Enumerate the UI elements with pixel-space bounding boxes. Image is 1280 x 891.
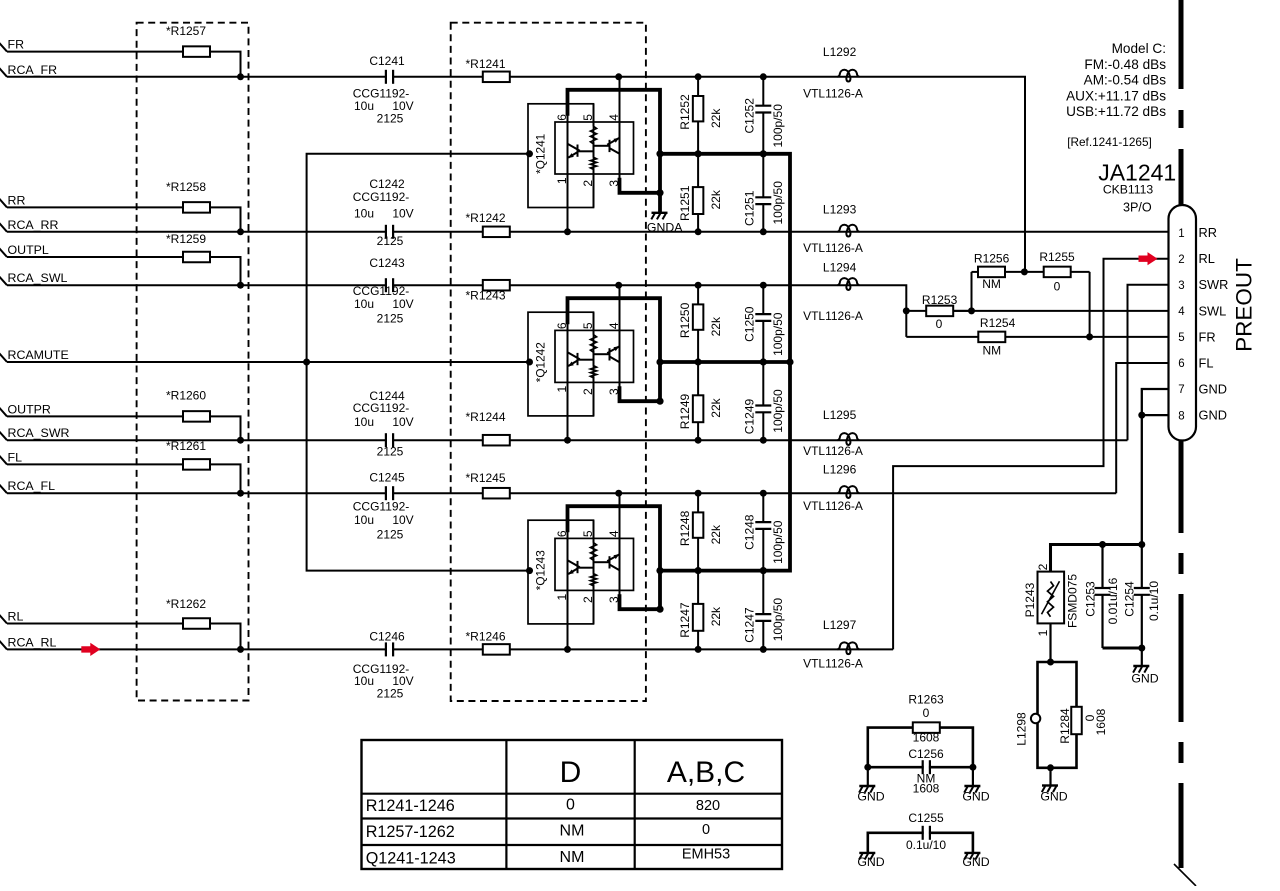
inductor L1297 VTL1126-A (837, 642, 859, 654)
svg-text:C1241: C1241 (369, 54, 405, 68)
resistor R1248 22k (697, 493, 699, 570)
resistor R1245 (series) (483, 488, 510, 499)
svg-text:Q1241-1243: Q1241-1243 (366, 850, 456, 868)
node rail junctions section 3 (695, 567, 702, 574)
red arrow at pin 2 (1139, 252, 1158, 265)
svg-text:*R1246: *R1246 (465, 630, 505, 644)
svg-text:C1252: C1252 (742, 98, 756, 134)
svg-text:RCA_RR: RCA_RR (8, 218, 59, 232)
svg-text:3: 3 (607, 388, 621, 395)
svg-text:RL: RL (8, 610, 24, 624)
svg-text:VTL1126-A: VTL1126-A (803, 499, 863, 513)
svg-text:RCA_FR: RCA_FR (8, 63, 58, 77)
wire RCA_SWR (0, 431, 1128, 440)
svg-text:22k: 22k (709, 189, 723, 209)
connector JA1241 CKB1113 3P/O (1169, 205, 1229, 441)
svg-text:3: 3 (607, 596, 621, 603)
capacitor C1247 100p/50 (762, 571, 764, 650)
red arrow on RCA_RL (81, 643, 100, 656)
svg-text:CCG1192-: CCG1192- (353, 401, 409, 415)
node RCA_SWL/R1253 junction (903, 307, 910, 314)
wire C1253/C1254 bottom rail (1103, 646, 1142, 649)
svg-text:100p/50: 100p/50 (771, 598, 785, 642)
node R1247 bottom (695, 646, 702, 653)
thermistor P1243 FSMD075 (1023, 563, 1080, 662)
node FL/RCA_FL junction (237, 490, 244, 497)
resistor R1263 0 1608 (868, 692, 973, 767)
svg-text:100p/50: 100p/50 (771, 389, 785, 433)
node C1254 tap (1138, 541, 1145, 548)
svg-text:C1253: C1253 (1083, 581, 1097, 617)
svg-text:RCA_RL: RCA_RL (8, 635, 57, 649)
svg-text:1608: 1608 (913, 782, 940, 796)
resistor R1256 NM (972, 271, 979, 273)
svg-text:*R1245: *R1245 (465, 471, 505, 485)
svg-text:NM: NM (982, 343, 1001, 357)
svg-text:GND: GND (857, 790, 884, 804)
node C1253 tap (1099, 541, 1106, 548)
svg-text:L1297: L1297 (823, 618, 857, 632)
svg-text:0.01u/16: 0.01u/16 (1106, 577, 1120, 624)
svg-text:10u: 10u (354, 415, 374, 429)
node R1248 top (695, 490, 702, 497)
dashed option-group box (R1257-R1262) (137, 23, 249, 701)
svg-text:GNDA: GNDA (647, 220, 683, 234)
node RCAMUTE bus junction (303, 359, 310, 366)
svg-text:R1252: R1252 (678, 94, 692, 130)
svg-text:5: 5 (581, 322, 595, 329)
svg-text:2: 2 (581, 180, 595, 187)
capacitor C1256 NM 1608 (864, 747, 976, 796)
svg-text:R1284: R1284 (1058, 708, 1072, 744)
svg-text:R1253: R1253 (922, 293, 958, 307)
svg-text:10V: 10V (392, 206, 413, 220)
svg-text:C1242: C1242 (369, 177, 405, 191)
node pin7/pin8 junction (1138, 412, 1145, 419)
svg-text:6: 6 (1178, 358, 1184, 370)
svg-text:10u: 10u (354, 674, 374, 688)
svg-text:1608: 1608 (913, 731, 940, 745)
ground GND (C1255 left) (859, 852, 875, 854)
svg-text:USB:+11.72 dBs: USB:+11.72 dBs (1066, 104, 1166, 119)
svg-text:D: D (560, 756, 582, 789)
wire RR (0, 198, 241, 231)
svg-text:AUX:+11.17 dBs: AUX:+11.17 dBs (1066, 88, 1166, 103)
svg-text:GND: GND (1040, 790, 1067, 804)
svg-text:FL: FL (1199, 355, 1214, 370)
svg-text:*R1258: *R1258 (166, 180, 206, 194)
svg-text:*R1260: *R1260 (166, 389, 206, 403)
svg-text:GND: GND (1131, 672, 1158, 686)
node R1250 top (695, 282, 702, 289)
svg-text:C1247: C1247 (742, 607, 756, 643)
transistor *Q1242 (dual digital transistor) (526, 282, 664, 444)
svg-text:*R1257: *R1257 (166, 24, 206, 38)
svg-text:C1243: C1243 (369, 256, 405, 270)
inductor L1295 VTL1126-A (837, 433, 859, 445)
ground GNDA (658, 193, 662, 213)
svg-text:1: 1 (555, 177, 569, 184)
svg-text:2: 2 (1036, 563, 1050, 570)
node OUTPL/RCA_SWL junction (237, 282, 244, 289)
svg-text:[Ref.1241-1265]: [Ref.1241-1265] (1067, 135, 1152, 149)
wire FL to pin 6 (1116, 363, 1168, 493)
capacitor C1250 100p/50 (762, 285, 764, 362)
svg-text:FL: FL (8, 450, 23, 464)
svg-text:AM:-0.54 dBs: AM:-0.54 dBs (1084, 73, 1167, 88)
resistor R1258 (option) (183, 202, 210, 213)
svg-text:NM: NM (982, 277, 1001, 291)
ground GND (C1256 right) (972, 767, 974, 786)
resistor R1260 (option) (183, 411, 210, 422)
svg-text:L1295: L1295 (823, 408, 857, 422)
svg-text:FSMD075: FSMD075 (1066, 574, 1080, 628)
svg-text:GND: GND (962, 790, 989, 804)
node C1252 top (760, 73, 767, 80)
thick rail section 2 (660, 360, 790, 364)
svg-text:10u: 10u (354, 297, 374, 311)
resistor R1250 22k (697, 285, 699, 362)
capacitor C1254 0.1u/10 (1141, 545, 1143, 649)
svg-text:C1255: C1255 (908, 811, 944, 825)
svg-text:C1248: C1248 (742, 514, 756, 550)
svg-text:R1248: R1248 (678, 510, 692, 546)
resistor R1241 (series) (483, 72, 510, 83)
svg-text:10V: 10V (392, 297, 413, 311)
node C1251 bottom (760, 228, 767, 235)
capacitor C1244 CCG1192-10u 10V 2125 (387, 432, 392, 448)
resistor R1247 22k (697, 571, 699, 650)
thick common rail bus (x=790) (658, 154, 790, 571)
heavy page-edge dashed line (bottom segment) (1179, 440, 1184, 533)
wire pins 7-8 to GND rail (1142, 389, 1169, 545)
svg-text:VTL1126-A: VTL1126-A (803, 657, 863, 671)
svg-text:3P/O: 3P/O (1123, 201, 1152, 215)
capacitor C1252 100p/50 (762, 77, 764, 154)
svg-text:C1250: C1250 (742, 306, 756, 342)
svg-text:4: 4 (607, 322, 621, 329)
node C1248 top (760, 490, 767, 497)
svg-text:10u: 10u (354, 206, 374, 220)
svg-text:0: 0 (936, 317, 943, 331)
inductor L1293 VTL1126-A (837, 225, 859, 237)
svg-text:C1254: C1254 (1123, 581, 1137, 617)
resistor R1251 22k (697, 154, 699, 232)
svg-text:L1294: L1294 (823, 260, 857, 274)
capacitor C1248 100p/50 (762, 493, 764, 570)
svg-text:6: 6 (555, 114, 569, 121)
node R1253/pin4 junction (968, 307, 975, 314)
svg-text:10u: 10u (354, 513, 374, 527)
svg-text:2125: 2125 (377, 527, 404, 541)
capacitor C1241 CCG1192-10u 10V 2125 (387, 69, 392, 85)
resistor R1257 (option) (183, 46, 210, 57)
node FR/R1255/R1256 junction (1021, 268, 1028, 275)
resistor R1244 (series) (483, 435, 510, 446)
svg-text:7: 7 (1178, 384, 1184, 396)
svg-text:R1257-1262: R1257-1262 (366, 823, 455, 841)
svg-text:VTL1126-A: VTL1126-A (803, 444, 863, 458)
svg-text:R1251: R1251 (678, 185, 692, 221)
svg-text:*Q1241: *Q1241 (534, 134, 548, 174)
svg-text:22k: 22k (709, 524, 723, 544)
svg-text:22k: 22k (709, 316, 723, 336)
svg-text:2: 2 (581, 388, 595, 395)
svg-text:2: 2 (581, 596, 595, 603)
dashed option-group box (R1241-R1246 / Q1241-Q1243) (451, 23, 646, 701)
svg-text:5: 5 (1178, 332, 1184, 344)
svg-text:VTL1126-A: VTL1126-A (803, 86, 863, 100)
inductor L1294 VTL1126-A (837, 278, 859, 290)
resistor R1243 (series) (483, 280, 510, 291)
svg-text:C1246: C1246 (369, 630, 405, 644)
svg-text:CKB1113: CKB1113 (1103, 183, 1154, 197)
svg-text:R1247: R1247 (678, 602, 692, 638)
node R1252 top (695, 73, 702, 80)
svg-text:R1249: R1249 (678, 394, 692, 430)
node OUTPR/RCA_SWR junction (237, 437, 244, 444)
svg-text:*R1241: *R1241 (465, 57, 505, 71)
wire RL to pin 2 (893, 259, 1168, 650)
svg-text:0: 0 (702, 822, 710, 838)
svg-text:1608: 1608 (1094, 708, 1108, 735)
capacitor C1246 CCG1192-10u 10V 2125 (387, 641, 392, 657)
transistor *Q1243 (dual digital transistor) (526, 490, 664, 653)
node RR/RCA_RR junction (237, 228, 244, 235)
resistor R1249 22k (697, 362, 699, 440)
svg-text:RCA_FL: RCA_FL (8, 479, 56, 493)
svg-text:1: 1 (555, 386, 569, 393)
svg-text:2125: 2125 (377, 234, 404, 248)
svg-text:*Q1242: *Q1242 (534, 342, 548, 382)
svg-text:C1256: C1256 (908, 747, 944, 761)
svg-text:0.1u/10: 0.1u/10 (906, 838, 946, 852)
svg-text:4: 4 (1178, 306, 1185, 318)
svg-text:1: 1 (555, 594, 569, 601)
svg-text:2125: 2125 (377, 312, 404, 326)
wire FL (0, 455, 241, 493)
svg-text:100p/50: 100p/50 (771, 181, 785, 225)
heavy page-edge dashed line (top segment) (1179, 0, 1184, 205)
capacitor C1245 CCG1192-10u 10V 2125 (387, 485, 392, 501)
node R1255/pin5 junction (1086, 333, 1093, 340)
svg-text:*R1242: *R1242 (465, 211, 505, 225)
svg-text:R1254: R1254 (980, 316, 1016, 330)
wire OUTPR (0, 407, 241, 440)
svg-text:RL: RL (1199, 251, 1215, 266)
svg-text:RCA_SWR: RCA_SWR (8, 426, 70, 440)
svg-text:NM: NM (560, 849, 585, 866)
svg-text:3: 3 (607, 180, 621, 187)
svg-text:*R1261: *R1261 (166, 439, 206, 453)
resistor R1246 (series) (483, 644, 510, 655)
svg-text:6: 6 (555, 530, 569, 537)
svg-text:L1292: L1292 (823, 45, 857, 59)
inductor L1298 / resistor R1284 parallel loop (1015, 659, 1108, 772)
capacitor C1242 CCG1192-10u 10V 2125 (387, 224, 392, 240)
svg-text:*R1262: *R1262 (166, 597, 206, 611)
svg-text:RR: RR (1199, 225, 1217, 240)
svg-text:5: 5 (581, 114, 595, 121)
wire SWR to pin 3 (1128, 285, 1169, 441)
svg-text:SWL: SWL (1199, 303, 1227, 318)
resistor R1254 NM (906, 336, 978, 338)
svg-text:NM: NM (560, 823, 585, 840)
wire RL (0, 615, 241, 650)
svg-text:EMH53: EMH53 (682, 847, 730, 863)
ground GND (C1254) (1141, 648, 1143, 666)
svg-text:A,B,C: A,B,C (667, 756, 745, 789)
svg-text:R1250: R1250 (678, 302, 692, 338)
svg-text:CCG1192-: CCG1192- (353, 190, 409, 204)
svg-text:VTL1126-A: VTL1126-A (803, 241, 863, 255)
svg-text:RCA_SWL: RCA_SWL (8, 271, 68, 285)
resistor R1259 (option) (183, 252, 210, 263)
svg-text:C1249: C1249 (742, 399, 756, 435)
node R1249 bottom (695, 437, 702, 444)
svg-text:FR: FR (1199, 329, 1216, 344)
svg-text:2125: 2125 (377, 111, 404, 125)
svg-text:0: 0 (566, 797, 575, 814)
capacitor C1253 0.01u/16 (1101, 545, 1103, 649)
svg-text:GND: GND (962, 855, 989, 869)
svg-text:C1251: C1251 (742, 190, 756, 226)
svg-text:6: 6 (555, 322, 569, 329)
capacitor C1255 0.1u/10 (868, 811, 973, 853)
svg-text:FR: FR (8, 38, 25, 52)
svg-text:RR: RR (8, 193, 26, 207)
svg-text:4: 4 (607, 114, 621, 121)
svg-text:RCAMUTE: RCAMUTE (8, 348, 69, 362)
svg-text:FM:-0.48 dBs: FM:-0.48 dBs (1084, 57, 1166, 72)
capacitor C1249 100p/50 (762, 362, 764, 440)
resistor R1253 0 (906, 310, 926, 312)
node R1251 bottom (695, 228, 702, 235)
svg-text:L1296: L1296 (823, 462, 857, 476)
svg-text:100p/50: 100p/50 (771, 104, 785, 148)
svg-text:CCG1192-: CCG1192- (353, 284, 409, 298)
node FR/RCA_FR junction (237, 73, 244, 80)
resistor R1252 22k (697, 77, 699, 154)
svg-text:R1256: R1256 (974, 252, 1010, 266)
svg-text:L1298: L1298 (1015, 712, 1029, 746)
svg-text:0: 0 (923, 706, 930, 720)
ground GND (C1256 left) (867, 767, 869, 786)
svg-text:P1243: P1243 (1023, 582, 1037, 617)
capacitor C1243 CCG1192-10u 10V 2125 (387, 277, 392, 293)
resistor R1261 (option) (183, 459, 210, 470)
resistor R1255 0 (1024, 271, 1044, 273)
node rail junctions section 1 (695, 150, 702, 157)
svg-text:1: 1 (1178, 228, 1184, 240)
transistor *Q1241 (dual digital transistor) (526, 73, 664, 235)
svg-text:Model C:: Model C: (1112, 41, 1166, 56)
svg-text:3: 3 (1178, 280, 1184, 292)
node C1247 bottom (760, 646, 767, 653)
ground GND (L1298) (1049, 768, 1051, 786)
wire RCA_FR (0, 68, 1025, 272)
capacitor C1251 100p/50 (762, 154, 764, 232)
svg-text:*R1244: *R1244 (465, 410, 505, 424)
wire OUTPL (0, 248, 241, 285)
svg-text:8: 8 (1178, 410, 1184, 422)
svg-text:0.1u/10: 0.1u/10 (1147, 581, 1161, 621)
ground GND (C1255 right) (964, 852, 980, 854)
wire SWL/R1253 to pin 4 (953, 272, 1168, 311)
wire mute bus vertical (307, 154, 530, 571)
svg-text:GND: GND (1199, 382, 1227, 397)
wire RCA_RR (to connector pin 1) (0, 223, 1169, 232)
svg-text:22k: 22k (709, 397, 723, 417)
svg-text:R1241-1246: R1241-1246 (366, 797, 455, 815)
wire RCAMUTE (0, 353, 530, 362)
svg-text:VTL1126-A: VTL1126-A (803, 309, 863, 323)
svg-text:OUTPL: OUTPL (8, 243, 49, 257)
inductor L1292 VTL1126-A (837, 70, 859, 82)
svg-text:2: 2 (1178, 254, 1184, 266)
svg-text:GND: GND (1199, 408, 1227, 423)
svg-text:R1255: R1255 (1039, 250, 1075, 264)
svg-text:*Q1243: *Q1243 (534, 550, 548, 590)
svg-text:10V: 10V (392, 415, 413, 429)
svg-text:GND: GND (857, 855, 884, 869)
svg-text:22k: 22k (709, 606, 723, 626)
svg-text:OUTPR: OUTPR (8, 402, 51, 416)
wire RCA_RL (0, 640, 893, 649)
resistor R1262 (option) (183, 618, 210, 629)
svg-text:C1245: C1245 (369, 470, 405, 484)
svg-text:*R1243: *R1243 (465, 289, 505, 303)
svg-text:CCG1192-: CCG1192- (353, 500, 409, 514)
node C1249 bottom (760, 437, 767, 444)
node RL/RCA_RL junction (237, 646, 244, 653)
svg-text:2125: 2125 (377, 444, 404, 458)
svg-text:*R1259: *R1259 (166, 232, 206, 246)
svg-text:22k: 22k (709, 108, 723, 128)
page corner cut mark (1176, 866, 1196, 886)
svg-text:820: 820 (696, 798, 720, 814)
svg-text:L1293: L1293 (823, 203, 857, 217)
svg-text:5: 5 (581, 530, 595, 537)
svg-text:R1263: R1263 (908, 692, 944, 706)
svg-text:0: 0 (1054, 280, 1061, 294)
node rail junctions section 2 (695, 358, 702, 365)
wire RCA_FL (0, 484, 1116, 493)
svg-text:SWR: SWR (1199, 277, 1229, 292)
svg-text:4: 4 (607, 530, 621, 537)
svg-text:10V: 10V (392, 513, 413, 527)
inductor L1296 VTL1126-A (837, 486, 859, 498)
svg-text:100p/50: 100p/50 (771, 312, 785, 356)
wire R1254 to pin 5 (1005, 272, 1168, 337)
resistor R1242 (series) (483, 227, 510, 238)
wire RCA_SWL (0, 276, 906, 337)
svg-text:1: 1 (1036, 629, 1050, 636)
node C1250 top (760, 282, 767, 289)
svg-text:2125: 2125 (377, 686, 404, 700)
wire FR (0, 43, 241, 77)
svg-text:100p/50: 100p/50 (771, 520, 785, 564)
thick rail to P1243/C1253/C1254 (1051, 545, 1142, 572)
option table (362, 740, 783, 869)
svg-text:PREOUT: PREOUT (1232, 258, 1257, 352)
svg-text:10u: 10u (354, 99, 374, 113)
